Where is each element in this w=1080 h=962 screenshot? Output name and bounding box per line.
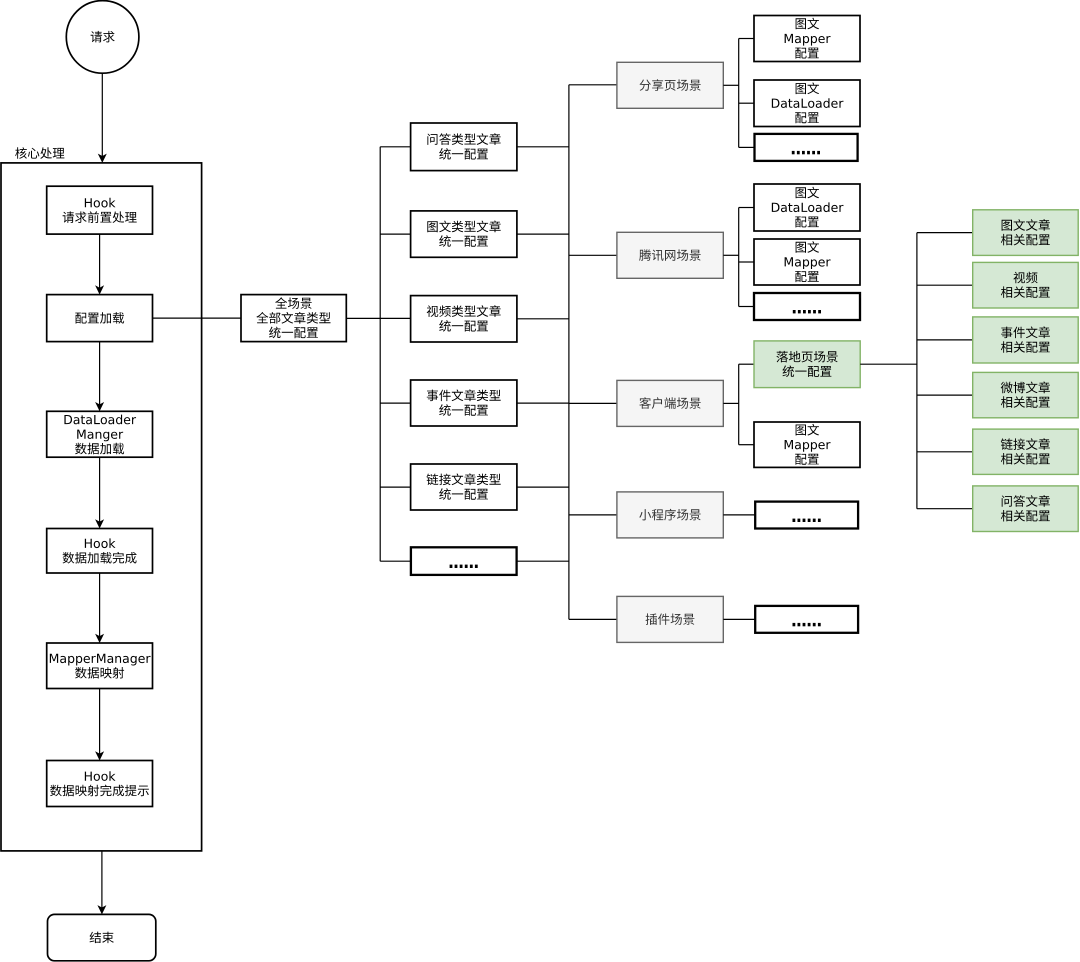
box 图文 DataLoader 配置 (分享页) [754, 80, 860, 127]
box 事件文章类型 统一配置 [411, 380, 517, 426]
wire trunk2→腾讯网场景 [569, 254, 617, 256]
wire 配置加载→全场景 [153, 317, 242, 319]
wire DataLoader→Hook 数据加载完成 [95, 457, 104, 528]
box 图文文章 相关配置 [973, 210, 1078, 256]
box 落地页场景 统一配置 (green) [754, 341, 860, 388]
wire bracket2 vertical [738, 208, 740, 307]
wire bracket1→图文Mapper配置 [739, 38, 754, 40]
wire bracket1→省略号 [739, 146, 755, 148]
wire bracket2→省略号 [739, 306, 754, 308]
box 省略号 (腾讯网 more) [754, 293, 860, 320]
wire bracket1 vertical [738, 39, 740, 148]
box 省略号 (小程序 more) [755, 502, 858, 529]
wire 省略号→trunk2 [517, 560, 569, 562]
wire bracket2→图文Mapper配置 [739, 261, 754, 263]
scene box 客户端场景 [617, 380, 723, 426]
wire 分享页场景→bracket1 [723, 84, 738, 86]
box 微博文章 相关配置 [973, 372, 1078, 417]
box 图文 DataLoader 配置 (腾讯网) [754, 184, 860, 231]
node 请求 (start circle) [66, 1, 139, 74]
wire trunk2→分享页场景 [569, 84, 617, 86]
wire trunk1 vertical bus [379, 147, 381, 561]
wire bracket4→链接文章相关配置 [917, 451, 973, 453]
wire 问答类型→trunk2 [517, 146, 569, 148]
scene box 小程序场景 [617, 492, 723, 538]
wire trunk1→视频类型文章 [380, 317, 410, 319]
wire bracket3→落地页场景统一配置 [739, 363, 754, 365]
wire trunk1→问答类型文章 [380, 146, 410, 148]
box 图文 Mapper 配置 (客户端) [754, 422, 860, 467]
wire container→结束 [97, 851, 106, 915]
scene box 插件场景 [617, 596, 723, 642]
wire trunk1→图文类型文章 [380, 233, 410, 235]
wire 插件场景→省略号 [723, 618, 755, 620]
wire bracket1→图文DataLoader配置 [739, 102, 754, 104]
wire trunk2→客户端场景 [569, 402, 617, 404]
wire 腾讯网场景→bracket2 [723, 254, 738, 256]
process box: Hook 数据加载完成 [47, 529, 153, 574]
wire trunk1→省略号框 [380, 560, 410, 562]
wire 请求 → 核心处理 container [98, 73, 107, 163]
wire trunk1→链接文章类型 [380, 486, 410, 488]
box 图文 Mapper 配置 (分享页) [754, 16, 860, 62]
wire →MapperManager [95, 573, 104, 643]
wire →Hook 数据映射完成提示 [95, 689, 104, 761]
box 链接文章类型 统一配置 [411, 464, 517, 510]
box 问答类型文章 统一配置 [411, 123, 517, 171]
container 核心处理 group frame [1, 163, 202, 851]
label 核心处理 [15, 147, 64, 159]
process box: MapperManager 数据映射 [47, 643, 153, 689]
process box: DataLoader Manger 数据加载 [47, 411, 153, 457]
scene box 分享页场景 [617, 62, 723, 108]
node 结束 (end) [48, 914, 156, 960]
process box: Hook 请求前置处理 [47, 186, 153, 234]
box 视频 相关配置 [973, 262, 1078, 308]
box 视频类型文章 统一配置 [411, 296, 517, 342]
process box: 配置加载 [47, 295, 153, 342]
box 链接文章 相关配置 [973, 429, 1078, 474]
wire 视频类型→trunk2 [517, 318, 569, 320]
wire 事件类型→trunk2 [517, 402, 569, 404]
wire 客户端场景→bracket3 [723, 402, 738, 404]
wire bracket4→事件文章相关配置 [917, 339, 973, 341]
scene box 腾讯网场景 [617, 232, 723, 278]
wire trunk2 vertical bus [568, 85, 570, 620]
wire bracket4→微博文章相关配置 [917, 394, 973, 396]
box 全场景 全部文章类型 统一配置 [241, 295, 346, 342]
wire trunk1→事件文章类型 [380, 402, 410, 404]
wire bracket4→问答文章相关配置 [917, 508, 973, 510]
wire bracket3 vertical [738, 364, 740, 445]
box 省略号 (分享页 more) [755, 134, 858, 161]
box 问答文章 相关配置 [973, 486, 1078, 532]
wire Hook→配置加载 [95, 234, 104, 295]
wire 小程序场景→省略号 [723, 514, 755, 516]
box 图文类型文章 统一配置 [411, 211, 517, 257]
wire bracket4→视频相关配置 [917, 284, 973, 286]
wire bracket4 vertical [916, 233, 918, 509]
wire 链接类型→trunk2 [517, 486, 569, 488]
box 省略号 (more article types) [411, 547, 517, 575]
wire bracket2→图文DataLoader配置 [739, 207, 754, 209]
box 事件文章 相关配置 [973, 317, 1078, 363]
wire bracket3→图文Mapper配置 [739, 444, 754, 446]
box 图文 Mapper 配置 (腾讯网) [754, 239, 860, 285]
wire 配置加载→DataLoader [95, 342, 104, 412]
wire bracket4→图文文章相关配置 [917, 232, 973, 234]
wire trunk2→小程序场景 [569, 514, 617, 516]
process box: Hook 数据映射完成提示 [47, 761, 153, 807]
wire 图文类型→trunk2 [517, 233, 569, 235]
wire trunk2→插件场景 [569, 618, 617, 620]
wire 落地页→bracket4 [860, 363, 917, 365]
box 省略号 (插件 more) [755, 606, 858, 633]
wire 全场景→trunk1 [346, 317, 380, 319]
